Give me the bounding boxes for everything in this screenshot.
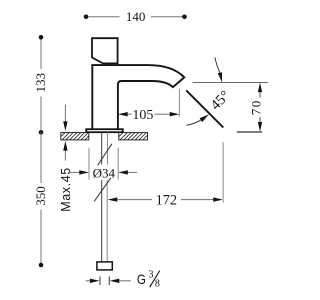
dim 70 bottom arrow	[258, 122, 262, 132]
dim 70 line	[259, 93, 261, 122]
svg-text:140: 140	[126, 9, 146, 24]
dim 105 right arrow	[155, 113, 170, 115]
svg-text:172: 172	[156, 193, 177, 209]
dim O34 left arrow	[68, 171, 79, 173]
dim 70 bottom tick	[237, 131, 263, 133]
faucet handle	[92, 38, 118, 63]
faucet body and spout outline	[92, 65, 184, 129]
45deg top arc arrow	[215, 57, 220, 72]
dim G3/8 ticks	[100, 277, 109, 286]
dim 133 end dots	[39, 35, 44, 40]
G3/8 connector	[97, 262, 112, 270]
pipe break slash upper	[98, 144, 112, 166]
svg-text:G: G	[137, 271, 146, 287]
svg-text:3: 3	[149, 270, 154, 281]
counter hatch right	[119, 133, 148, 140]
45deg lower arc arrow	[186, 119, 202, 125]
dim O34 right arrow	[128, 171, 137, 173]
dim 172 left arrow	[108, 197, 118, 201]
dim Max.45 upper arrow	[64, 105, 66, 122]
dim 140 end dots	[84, 14, 89, 19]
dim O34 extension lines	[89, 148, 118, 180]
45deg diagonal outlet line	[186, 90, 223, 127]
dim 350 end dot	[39, 263, 44, 268]
supply pipe lines	[102, 132, 108, 262]
dim 350 line	[40, 132, 42, 265]
svg-text:8: 8	[155, 278, 160, 289]
svg-text:105: 105	[132, 108, 153, 123]
dim 172 right arrow	[181, 199, 213, 201]
dim Max.45 lower arrow	[64, 150, 66, 160]
svg-text:133: 133	[33, 73, 48, 93]
dim 105 left arrow	[118, 112, 128, 116]
dim 172 extension line	[222, 142, 224, 203]
pipe break slash lower	[94, 178, 111, 202]
dim G3/8 left arrow	[86, 280, 90, 282]
counter hatch left	[61, 133, 89, 140]
svg-text:Ø34: Ø34	[93, 166, 116, 181]
dim 70 top arrow	[258, 83, 262, 93]
45deg reference horizontal line	[193, 82, 269, 84]
svg-text:Max.45: Max.45	[59, 167, 73, 212]
dim G3/8 right arrow	[110, 279, 120, 283]
base plate	[86, 129, 123, 132]
dim 105 extension line	[178, 89, 180, 117]
dim 133 line	[40, 37, 42, 132]
svg-text:70: 70	[249, 99, 264, 115]
dim 140 line	[86, 16, 185, 18]
svg-text:350: 350	[33, 186, 48, 206]
